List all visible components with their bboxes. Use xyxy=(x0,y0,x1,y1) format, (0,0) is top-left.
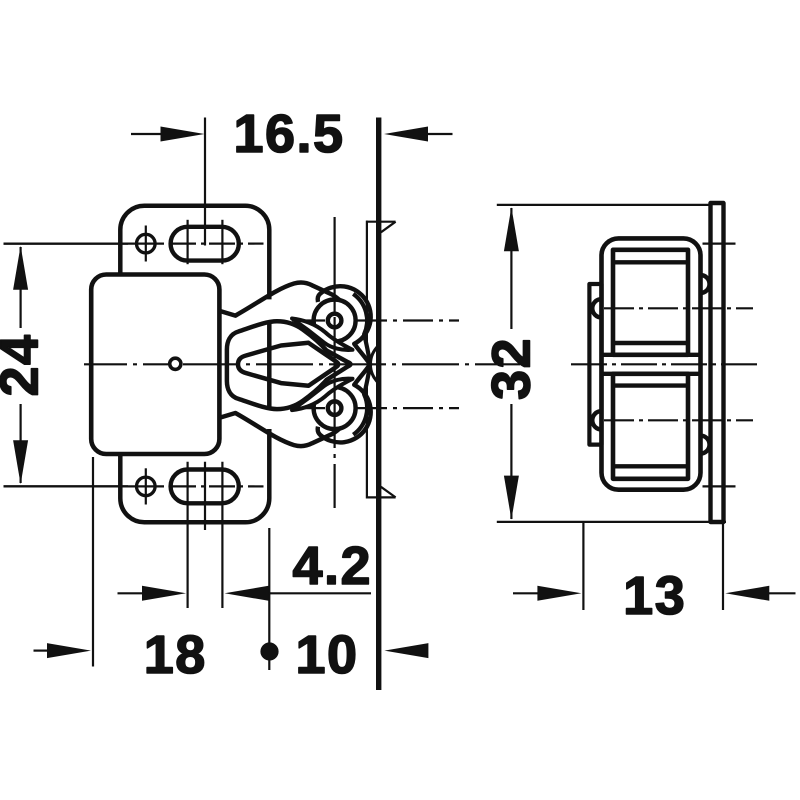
svg-text:4.2: 4.2 xyxy=(293,536,373,596)
svg-text:18: 18 xyxy=(144,625,207,685)
svg-text:24: 24 xyxy=(0,333,50,396)
svg-text:32: 32 xyxy=(482,337,542,400)
svg-text:10: 10 xyxy=(295,625,358,685)
svg-text:13: 13 xyxy=(623,566,686,626)
svg-text:16.5: 16.5 xyxy=(233,104,344,164)
